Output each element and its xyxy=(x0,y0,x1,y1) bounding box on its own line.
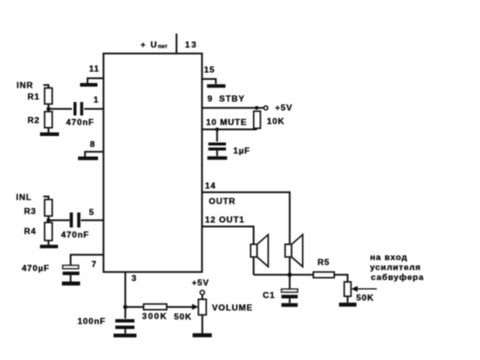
svg-text:на вход: на вход xyxy=(370,252,408,262)
svg-text:470nF: 470nF xyxy=(61,230,89,240)
svg-text:11: 11 xyxy=(89,64,99,74)
svg-text:9 STBY: 9 STBY xyxy=(208,93,245,103)
svg-text:INL: INL xyxy=(16,192,32,202)
svg-text:10K: 10K xyxy=(267,116,285,126)
svg-text:+: + xyxy=(141,40,147,50)
svg-text:R5: R5 xyxy=(318,257,330,267)
svg-text:+5V: +5V xyxy=(192,278,210,288)
svg-text:1µF: 1µF xyxy=(233,146,250,156)
svg-text:50K: 50K xyxy=(356,293,374,303)
svg-text:300K: 300K xyxy=(142,311,168,321)
svg-text:пит: пит xyxy=(158,44,168,50)
svg-text:10 MUTE: 10 MUTE xyxy=(206,117,247,127)
svg-text:R3: R3 xyxy=(24,206,36,216)
svg-text:сабвуфера: сабвуфера xyxy=(371,272,424,282)
svg-text:13: 13 xyxy=(185,40,198,50)
svg-text:R4: R4 xyxy=(24,226,36,236)
svg-text:R2: R2 xyxy=(28,115,40,125)
svg-text:100nF: 100nF xyxy=(78,316,106,326)
svg-text:8: 8 xyxy=(90,139,95,149)
svg-text:усилителя: усилителя xyxy=(370,262,421,272)
svg-text:5: 5 xyxy=(89,207,94,217)
svg-text:7: 7 xyxy=(92,259,97,269)
svg-text:1: 1 xyxy=(94,95,99,105)
svg-text:15: 15 xyxy=(204,65,215,75)
svg-text:VOLUME: VOLUME xyxy=(212,303,253,313)
svg-text:R1: R1 xyxy=(28,92,40,102)
svg-text:12 OUT1: 12 OUT1 xyxy=(205,215,245,225)
svg-text:14: 14 xyxy=(205,180,216,190)
svg-text:470µF: 470µF xyxy=(22,263,50,273)
svg-text:C1: C1 xyxy=(263,290,275,300)
svg-text:50K: 50K xyxy=(174,312,192,322)
svg-text:OUTR: OUTR xyxy=(209,196,236,206)
svg-text:470nF: 470nF xyxy=(66,117,94,127)
svg-text:3: 3 xyxy=(132,273,137,283)
svg-text:U: U xyxy=(151,40,158,50)
svg-text:+5V: +5V xyxy=(275,103,293,113)
svg-text:INR: INR xyxy=(17,80,34,90)
